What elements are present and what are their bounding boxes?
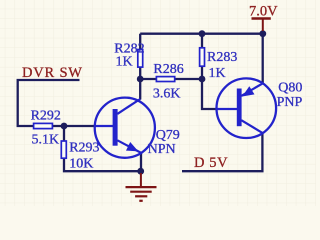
svg-text:R283: R283 bbox=[207, 50, 237, 65]
designator R293 bbox=[69, 141, 99, 156]
junction node 7.0V bbox=[259, 30, 266, 37]
wire Q80 emitter to 7.0V bbox=[262, 34, 264, 84]
wire R283 to Q80 base bbox=[202, 79, 217, 109]
type PNP bbox=[277, 95, 303, 110]
net label DVR SW bbox=[22, 65, 83, 81]
resistor R283 bbox=[200, 48, 205, 66]
junction node R282 bottom bbox=[137, 76, 144, 83]
designator R283 bbox=[207, 50, 237, 65]
value 3.6K (R286) bbox=[153, 86, 181, 101]
power net label 7.0V bbox=[249, 3, 278, 19]
svg-text:PNP: PNP bbox=[277, 95, 303, 110]
svg-text:R292: R292 bbox=[31, 108, 61, 123]
transistor Q80 PNP bbox=[217, 78, 277, 138]
wire R292 to Q79 base bbox=[53, 125, 96, 127]
wire R293 top stub bbox=[63, 126, 65, 141]
designator R286 bbox=[153, 62, 183, 77]
junction node R283 top bbox=[199, 30, 206, 37]
wire DVR SW rail bbox=[18, 80, 80, 126]
svg-text:DVR SW: DVR SW bbox=[22, 65, 83, 81]
resistor R282 bbox=[138, 50, 143, 68]
wire R293 bottom to emitter bbox=[64, 158, 141, 171]
svg-text:Q80: Q80 bbox=[278, 81, 302, 96]
svg-text:R286: R286 bbox=[153, 62, 183, 77]
value 10K (R293) bbox=[69, 157, 93, 172]
svg-text:R293: R293 bbox=[69, 141, 99, 156]
ground symbol bbox=[126, 173, 157, 201]
power port 7.0V symbol bbox=[252, 19, 271, 32]
type NPN bbox=[148, 142, 176, 157]
wire mid rail bbox=[140, 78, 202, 80]
value 1K (R283) bbox=[209, 66, 226, 81]
wire Q79 collector vertical bbox=[139, 79, 141, 100]
junction node R283 bottom bbox=[199, 76, 206, 83]
svg-text:1K: 1K bbox=[116, 55, 133, 70]
wire Q80 collector to D 5V bbox=[182, 132, 262, 171]
svg-text:D 5V: D 5V bbox=[194, 155, 228, 171]
designator Q80 bbox=[278, 81, 302, 96]
junction node Q79 base bbox=[61, 123, 68, 130]
wire R283 top stub bbox=[201, 34, 203, 49]
svg-text:7.0V: 7.0V bbox=[249, 3, 278, 19]
transistor Q79 NPN bbox=[95, 98, 155, 158]
designator Q79 bbox=[156, 128, 180, 143]
wire Q79 emitter vertical bbox=[140, 153, 142, 172]
wire R283 bottom stub bbox=[201, 67, 203, 79]
junction node Q79 emitter bbox=[137, 168, 144, 175]
wire R282 bottom stub bbox=[139, 67, 141, 79]
resistor R286 bbox=[156, 77, 174, 82]
wire R282 top stub bbox=[139, 34, 141, 50]
value 1K (R282) bbox=[116, 55, 133, 70]
designator R292 bbox=[31, 108, 61, 123]
resistor R292 bbox=[34, 123, 53, 128]
svg-text:1K: 1K bbox=[209, 66, 226, 81]
designator R282 bbox=[114, 42, 144, 57]
svg-text:3.6K: 3.6K bbox=[153, 86, 181, 101]
svg-text:10K: 10K bbox=[69, 157, 93, 172]
svg-text:5.1K: 5.1K bbox=[32, 133, 60, 148]
wire top rail bbox=[140, 33, 263, 35]
net label D 5V bbox=[194, 155, 228, 171]
svg-text:Q79: Q79 bbox=[156, 128, 180, 143]
resistor R293 bbox=[61, 141, 66, 158]
svg-text:NPN: NPN bbox=[148, 142, 176, 157]
value 5.1K (R292) bbox=[32, 133, 60, 148]
